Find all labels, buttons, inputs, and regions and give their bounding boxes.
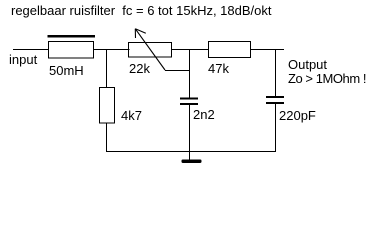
resistor R2 value label 4k7 xyxy=(121,108,142,123)
node Zo label xyxy=(288,71,366,86)
wire P1 wiper to node A xyxy=(165,70,190,72)
svg-text:2n2: 2n2 xyxy=(193,107,215,122)
node input label xyxy=(9,52,38,67)
wire C2 to ground rail xyxy=(275,104,277,152)
resistor R2 body 4k7 xyxy=(100,88,115,124)
wire L1 to P1 with junction to R2 xyxy=(94,49,130,51)
node Output label xyxy=(288,57,327,72)
capacitor C1 bottom plate xyxy=(180,103,198,105)
title label xyxy=(11,3,272,18)
svg-text:220pF: 220pF xyxy=(279,108,316,123)
resistor R1 value label 47k xyxy=(208,61,229,76)
wire P1 to R1 xyxy=(172,49,209,51)
potentiometer P1 wiper arrow xyxy=(135,29,165,70)
wire input to L1 xyxy=(13,49,49,51)
potentiometer P1 body 22k xyxy=(129,43,172,58)
ground symbol xyxy=(182,160,202,164)
svg-text:50mH: 50mH xyxy=(49,63,84,78)
wire C1 to ground bar xyxy=(189,105,191,162)
svg-text:Zo > 1MOhm !: Zo > 1MOhm ! xyxy=(288,71,366,86)
potentiometer P1 value label 22k xyxy=(129,61,150,76)
inductor L1 body 50mH xyxy=(49,42,94,59)
inductor L1 value label 50mH xyxy=(49,63,84,78)
capacitor C1 value label 2n2 xyxy=(193,107,215,122)
wire ground rail xyxy=(106,151,276,153)
resistor R1 body 47k xyxy=(209,42,251,58)
wire junction down to R2 xyxy=(106,50,108,88)
inductor L1 core bar xyxy=(48,35,96,38)
wire R2 to ground rail xyxy=(106,123,108,152)
svg-text:22k: 22k xyxy=(129,61,150,76)
capacitor C1 top plate xyxy=(180,98,198,100)
svg-text:47k: 47k xyxy=(208,61,229,76)
capacitor C2 top plate xyxy=(266,96,284,98)
wire R1 to output xyxy=(251,49,285,51)
svg-text:Output: Output xyxy=(288,57,327,72)
wire output junction down to C2 xyxy=(275,50,277,96)
svg-text:4k7: 4k7 xyxy=(121,108,142,123)
capacitor C2 bottom plate xyxy=(266,102,284,104)
capacitor C2 value label 220pF xyxy=(279,108,316,123)
svg-text:regelbaar ruisfilter fc = 6 t: regelbaar ruisfilter fc = 6 tot 15kHz, 1… xyxy=(11,3,272,18)
svg-text:input: input xyxy=(9,52,38,67)
wire node A down to C1 xyxy=(189,50,191,98)
